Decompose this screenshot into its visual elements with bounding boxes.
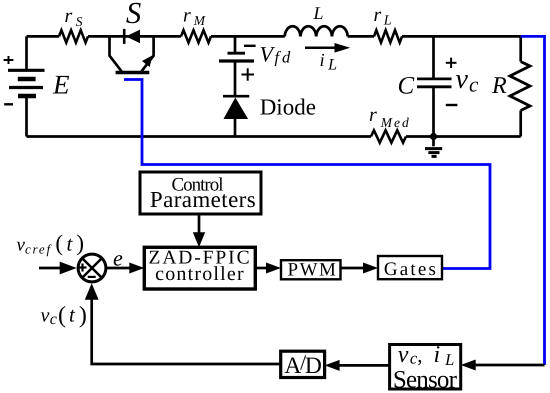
svg-text:controller: controller: [155, 263, 245, 285]
svg-text:Parameters: Parameters: [150, 187, 256, 212]
svg-text:Sensor: Sensor: [393, 366, 458, 393]
svg-text:Gates: Gates: [384, 259, 438, 280]
svg-text:e: e: [113, 246, 123, 271]
svg-text:R: R: [491, 73, 507, 99]
svg-text:Diode: Diode: [260, 95, 316, 120]
svg-text:E: E: [52, 70, 70, 100]
svg-text:S: S: [126, 0, 141, 30]
svg-text:C: C: [398, 73, 415, 100]
svg-text:L: L: [313, 3, 324, 23]
svg-text:PWM: PWM: [288, 260, 338, 281]
svg-text:vc(t): vc(t): [41, 302, 87, 328]
